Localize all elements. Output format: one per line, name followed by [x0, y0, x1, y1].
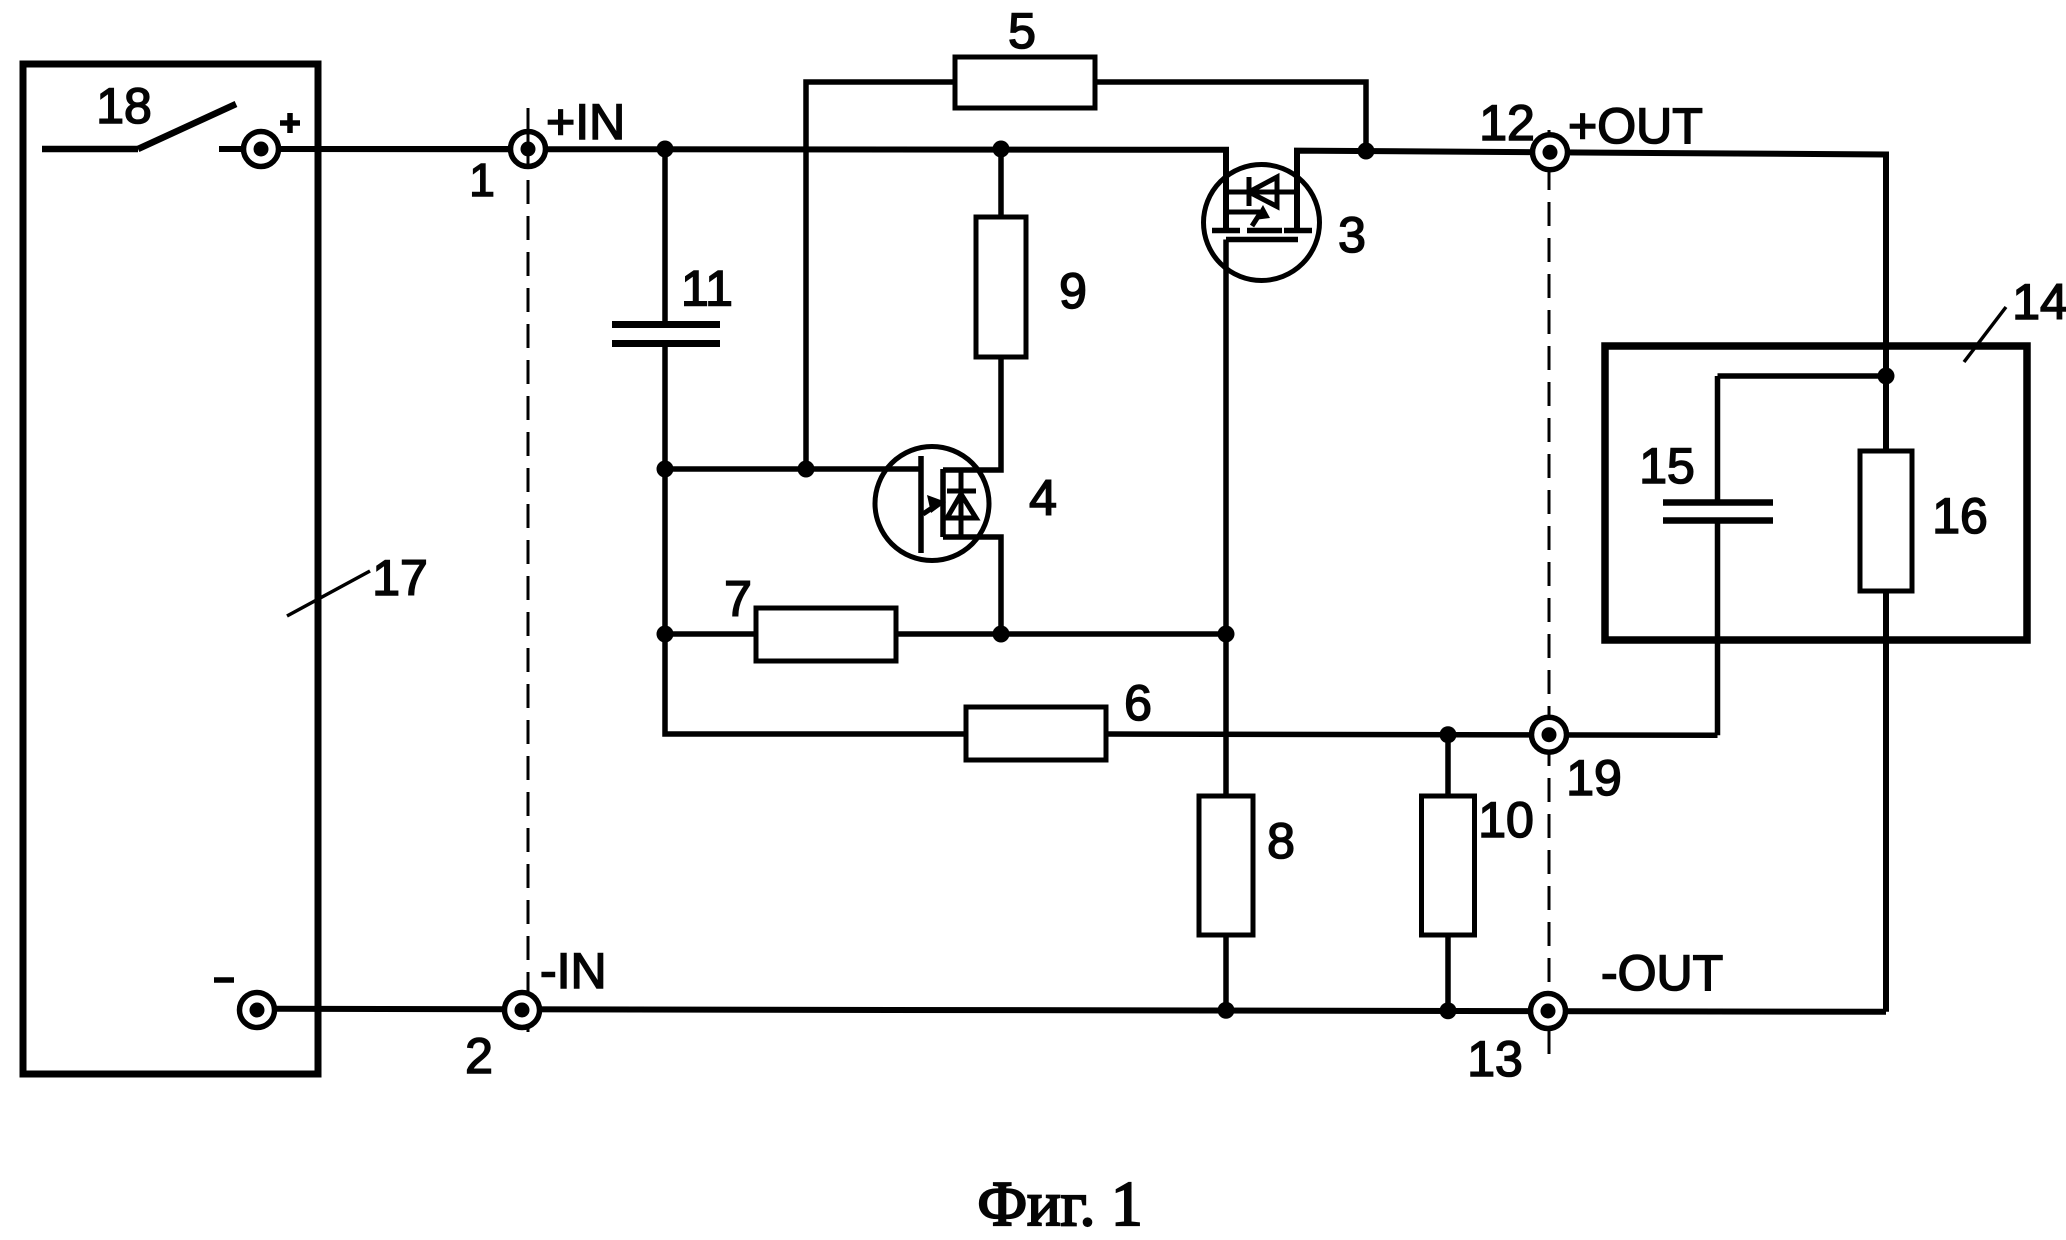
- svg-text:14: 14: [2012, 274, 2066, 330]
- svg-text:3: 3: [1338, 207, 1366, 263]
- svg-text:6: 6: [1124, 675, 1152, 731]
- svg-text:11: 11: [681, 261, 733, 317]
- svg-text:17: 17: [372, 550, 428, 606]
- svg-text:16: 16: [1932, 488, 1988, 544]
- svg-text:5: 5: [1008, 3, 1036, 59]
- svg-text:-IN: -IN: [540, 943, 607, 999]
- svg-text:8: 8: [1267, 813, 1295, 869]
- svg-text:12: 12: [1479, 95, 1535, 151]
- svg-text:4: 4: [1029, 470, 1057, 526]
- svg-text:7: 7: [724, 571, 752, 627]
- svg-text:13: 13: [1467, 1031, 1523, 1087]
- svg-text:+OUT: +OUT: [1568, 98, 1703, 154]
- svg-text:18: 18: [96, 78, 152, 134]
- svg-text:+IN: +IN: [546, 94, 625, 150]
- svg-text:19: 19: [1566, 750, 1622, 806]
- svg-text:Фиг. 1: Фиг. 1: [977, 1169, 1142, 1239]
- svg-text:1: 1: [469, 154, 495, 206]
- svg-text:-OUT: -OUT: [1601, 945, 1723, 1001]
- svg-text:9: 9: [1059, 263, 1087, 319]
- svg-text:10: 10: [1478, 792, 1534, 848]
- svg-text:2: 2: [465, 1028, 493, 1084]
- svg-text:15: 15: [1639, 438, 1695, 494]
